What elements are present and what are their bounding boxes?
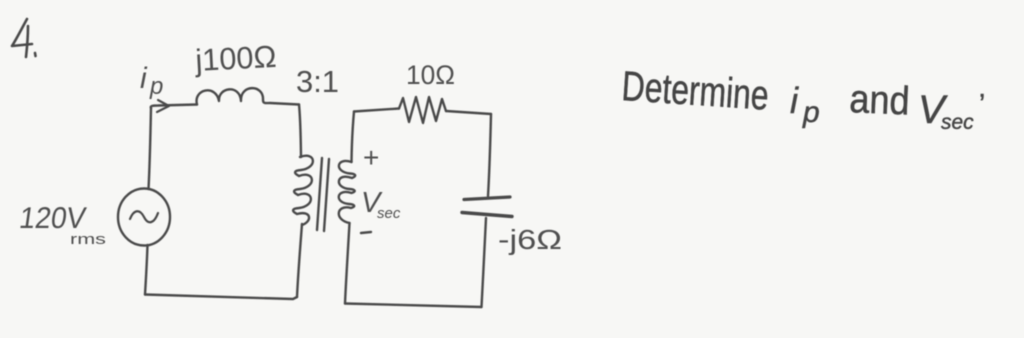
wire: primary top-left corner to inductor — [151, 105, 197, 109]
svg-text:rms: rms — [70, 231, 106, 248]
resistor R1 10ohm zigzag — [399, 97, 446, 123]
wire: secondary left side below winding — [345, 223, 350, 304]
transformer core (two lines) — [317, 158, 322, 230]
task text: Vsec' — [918, 88, 985, 134]
svg-text:sec: sec — [377, 205, 401, 222]
label -j6ohm — [498, 224, 562, 255]
transformer primary winding — [293, 156, 313, 225]
label j100ohm — [194, 39, 278, 78]
label 10ohm — [406, 60, 455, 90]
secondary: top-left corner down to winding — [352, 112, 355, 163]
svg-text:p: p — [802, 96, 820, 129]
capacitor C1 top plate — [464, 197, 510, 200]
wire: primary right side below winding — [297, 224, 302, 297]
svg-text:Determine: Determine — [620, 62, 770, 119]
label 3:1 turns ratio — [296, 64, 339, 99]
wire: secondary bottom — [345, 304, 482, 308]
wire: primary left side lower — [145, 245, 148, 295]
svg-text:p: p — [149, 73, 163, 100]
wire: primary right side down to transformer — [299, 105, 301, 158]
svg-text:3:1: 3:1 — [296, 64, 339, 99]
svg-text:and: and — [849, 77, 911, 124]
wire: secondary right side upper (above capacitor) — [488, 114, 491, 196]
AC source Vs 120Vrms — [118, 189, 170, 246]
svg-text:+: + — [363, 142, 379, 173]
svg-text:sec: sec — [941, 111, 974, 134]
svg-text:-j6Ω: -j6Ω — [498, 224, 562, 255]
capacitor C1 bottom plate — [462, 213, 512, 217]
wire: primary bottom — [145, 295, 297, 300]
task text: ip — [790, 80, 820, 129]
svg-text:10Ω: 10Ω — [406, 60, 455, 90]
label 120Vrms — [17, 202, 106, 248]
inductor L1 j100ohm (three bumps) — [197, 88, 299, 104]
current arrow on primary top wire — [157, 100, 169, 112]
sine symbol inside source — [130, 211, 158, 222]
problem number 4. — [12, 19, 36, 57]
svg-text:’: ’ — [979, 88, 985, 119]
label ip — [140, 62, 163, 100]
wire: secondary top right segment — [446, 111, 491, 114]
transformer secondary winding — [339, 161, 355, 223]
svg-text:i: i — [140, 62, 148, 95]
wire: primary left side upper — [149, 108, 152, 189]
task text: Determine — [620, 62, 770, 119]
label Vsec — [361, 187, 401, 222]
task text: and — [849, 77, 911, 124]
svg-text:i: i — [790, 80, 799, 121]
wire: secondary top left segment — [354, 109, 399, 112]
label - (Vsec polarity) — [361, 232, 371, 233]
label + (Vsec polarity) — [363, 142, 379, 173]
wire: secondary right side lower (below capacitor) — [482, 218, 487, 307]
svg-text:j100Ω: j100Ω — [194, 39, 278, 78]
